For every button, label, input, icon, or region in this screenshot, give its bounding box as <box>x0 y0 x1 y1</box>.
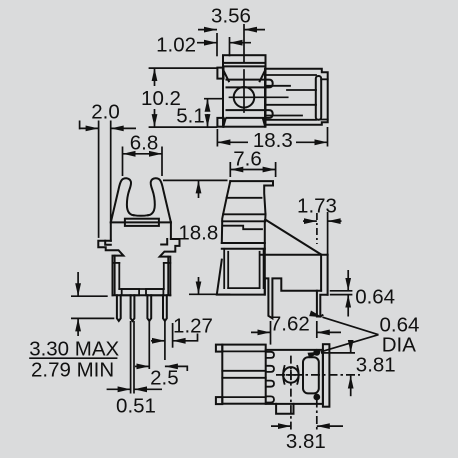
front view right clip arm <box>148 178 171 222</box>
front view left clip arm <box>111 178 134 222</box>
svg-text:3.81: 3.81 <box>356 354 396 377</box>
svg-text:2.5: 2.5 <box>150 367 179 390</box>
dim 2.0 line right <box>111 127 136 129</box>
dot column extension <box>316 400 318 430</box>
bottom view hole dot upper <box>314 350 319 355</box>
svg-text:3.56: 3.56 <box>211 4 251 27</box>
bottom view left rect (clip from below) <box>222 345 265 404</box>
dim 7.6 line <box>230 169 275 171</box>
pin3 center extension <box>148 321 150 369</box>
dim 2.0 extensions <box>98 121 100 238</box>
top view left tab upper <box>217 68 223 79</box>
leader 0.64 DIA to dot <box>321 335 379 352</box>
side view rear leg <box>317 291 328 317</box>
svg-text:1.73: 1.73 <box>297 195 337 218</box>
top view clip band lower <box>227 110 273 118</box>
front view pin 4 <box>163 295 167 321</box>
top view barrel rim lines <box>321 78 328 80</box>
dim 3.81 bottom line <box>271 425 291 427</box>
bottom view screw cross <box>287 374 296 376</box>
dim 6.8 line <box>123 153 163 155</box>
bottom view left tab upper <box>216 345 222 352</box>
dim 3.30/2.79 tick upper <box>71 295 108 297</box>
side view right edge upper <box>264 214 266 221</box>
dim 3.56 extension lines <box>216 33 218 56</box>
dim 2.5 line <box>135 365 149 367</box>
side view left foot slant <box>217 260 265 295</box>
svg-text:0.51: 0.51 <box>116 395 156 418</box>
dim 7.62 line <box>251 331 271 333</box>
side view rear block right edge <box>327 255 329 295</box>
pin4 center extension <box>164 321 166 360</box>
svg-text:3.81: 3.81 <box>286 430 326 453</box>
side view wedge bottom line <box>262 254 328 256</box>
front view right ear <box>160 239 180 295</box>
side view rear leg serif <box>320 315 322 316</box>
dim 18.3 line <box>217 141 248 143</box>
body right edge extension for 1.27 <box>172 323 174 348</box>
top view left tab lower <box>217 118 223 127</box>
side view inner horizontals <box>222 198 265 229</box>
top view clip band upper <box>227 80 273 88</box>
front view left ear notch <box>105 241 111 245</box>
top view main body <box>223 55 266 127</box>
side view top outline with lip <box>230 181 273 214</box>
dim 3.30/2.79 arrow upper <box>77 272 79 296</box>
side view rear block left edge <box>320 255 322 291</box>
bottom view D slot <box>303 357 319 393</box>
dim 1.73 extension right <box>327 212 329 255</box>
dim 1.02 line <box>197 42 217 44</box>
front view body sides upper <box>110 222 112 240</box>
bottom view boss side arcs <box>283 366 284 384</box>
dim 3.30/2.79 tick lower <box>71 317 114 319</box>
svg-text:6.8: 6.8 <box>130 132 159 155</box>
dim 6.8 extensions <box>122 147 124 177</box>
dim 3.81 right arrows <box>350 340 352 353</box>
front view pin 2 <box>131 295 135 321</box>
top view fuse hole circle <box>234 87 255 108</box>
pin2 extension lines for 0.51 <box>130 321 132 394</box>
front view lower body inner walls <box>113 256 171 294</box>
dim 1.27 line <box>151 340 165 342</box>
dim 7.6 extensions <box>229 162 231 177</box>
fraction line <box>29 357 117 359</box>
bottom view screw boss circle <box>283 367 299 383</box>
dim 18.3 extensions <box>216 129 218 147</box>
dim 18.8 extension bottom <box>189 293 230 295</box>
front view body bottom edge <box>113 294 171 296</box>
svg-text:0.64: 0.64 <box>355 286 395 309</box>
leader 0.64 DIA to leg tip <box>323 317 379 335</box>
dim 0.64 upper arrows <box>347 270 349 291</box>
front view right ear notch <box>161 239 167 245</box>
dim 2.0 line left <box>80 127 99 129</box>
top view barrel end cap <box>316 76 321 120</box>
dim 10.2 extension bottom / part bottom extension <box>149 126 218 128</box>
side view wedge diagonal <box>265 220 321 255</box>
bottom view left tab lower <box>216 397 222 404</box>
dim 10.2 arrows <box>154 68 156 86</box>
dim 5.1 extension <box>204 98 224 100</box>
dim 18.8 arrows <box>198 180 200 198</box>
svg-text:3.30 MAX: 3.30 MAX <box>29 338 119 361</box>
side view right edge of body <box>264 221 266 294</box>
front view bowl bottom <box>134 214 149 217</box>
dim 1.73 extension dashed centerline <box>316 213 318 244</box>
dim 0.64 upper ticks <box>330 290 353 292</box>
side view inner box walls <box>224 249 263 288</box>
top view barrel inner lines <box>265 75 316 120</box>
svg-text:1.27: 1.27 <box>173 315 213 338</box>
front view pin base boxes <box>122 289 139 295</box>
dim 0.51 line <box>107 388 131 390</box>
bottom view hole dot lower <box>314 395 319 400</box>
bottom view bottom tab <box>276 404 293 414</box>
svg-text:7.6: 7.6 <box>233 148 262 171</box>
dim 3.81 right tick <box>321 352 355 354</box>
svg-text:7.62: 7.62 <box>270 313 310 336</box>
dim 10.2 extension top <box>149 67 218 69</box>
bottom view pin bumps <box>267 352 275 403</box>
top view barrel outline <box>265 69 328 125</box>
dim 1.73 line <box>303 220 317 222</box>
bottom view body rect <box>266 350 323 404</box>
svg-text:10.2: 10.2 <box>141 87 181 110</box>
front view left ear <box>98 241 123 295</box>
bottom view vertical centerline through screw <box>290 356 292 430</box>
front view band box <box>125 219 159 226</box>
side view body box lines <box>222 242 265 244</box>
svg-text:1.02: 1.02 <box>156 33 196 56</box>
front view pin 1 <box>117 295 121 321</box>
dim 2.0 tick <box>79 121 81 130</box>
dim 7.62 extensions <box>270 321 272 345</box>
front view shoulder line <box>111 221 171 223</box>
dim 3.56 line <box>198 29 217 31</box>
bottom view right flange <box>323 344 330 407</box>
svg-text:18.8: 18.8 <box>178 222 218 245</box>
top view circle crosshair <box>230 96 288 98</box>
front view pin 3 <box>147 295 151 321</box>
dim 3.30/2.79 arrow lower <box>77 318 79 336</box>
svg-text:5.1: 5.1 <box>176 105 205 128</box>
svg-text:2.79 MIN: 2.79 MIN <box>31 359 114 382</box>
side view front leg <box>265 278 321 318</box>
side view left edge taper <box>222 181 231 243</box>
svg-text:2.0: 2.0 <box>91 101 120 124</box>
dim 5.1 arrows <box>207 99 209 110</box>
bottom view horizontal centerline <box>276 374 360 376</box>
dim 18.8 extension top <box>163 179 228 181</box>
